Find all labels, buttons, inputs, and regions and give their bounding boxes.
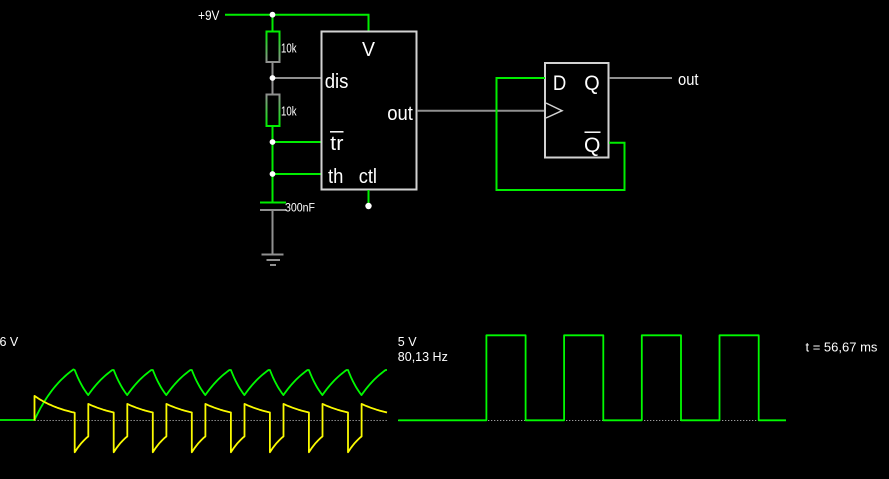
svg-text:out: out [387, 103, 413, 125]
svg-text:6 V: 6 V [0, 335, 19, 349]
wire top rail to 555 V+ pin [272, 15, 369, 31]
svg-text:+9V: +9V [198, 7, 220, 23]
svg-text:80,13 Hz: 80,13 Hz [398, 350, 448, 364]
ctl unconnected post [365, 203, 371, 209]
wire R2 bottom to tr node [272, 126, 274, 142]
svg-text:dis: dis [325, 71, 349, 93]
wire 555 out to flip-flop clock [417, 110, 544, 112]
junction th node [270, 171, 276, 177]
capacitor C1 top plate [260, 202, 286, 204]
wire +9V to top junction [225, 14, 272, 16]
label Qbar overline [585, 131, 601, 133]
scope 1 capacitor current trace [35, 396, 388, 452]
svg-text:tr: tr [330, 133, 344, 155]
scope 2 output voltage trace [398, 335, 786, 420]
capacitor C1 bottom plate [260, 209, 286, 211]
scope 1 zero reference line [35, 420, 389, 422]
wire ctl stub [368, 190, 370, 203]
wire tr node to th node [272, 142, 274, 174]
svg-text:10k: 10k [281, 40, 297, 55]
svg-text:out: out [678, 70, 699, 89]
svg-text:300nF: 300nF [285, 201, 315, 215]
svg-text:5 V: 5 V [398, 335, 417, 349]
svg-text:t = 56,67 ms: t = 56,67 ms [806, 339, 878, 354]
junction dis node [270, 75, 276, 81]
svg-text:10k: 10k [281, 103, 297, 118]
svg-text:Q: Q [584, 71, 599, 95]
junction top rail [270, 12, 276, 18]
wire th [273, 173, 322, 175]
wire dis [273, 77, 322, 79]
svg-text:ctl: ctl [359, 166, 377, 188]
resistor R1 [267, 32, 280, 63]
wire R1 top [272, 15, 274, 32]
wire capacitor to ground [272, 211, 274, 254]
scope 1 capacitor voltage trace [0, 369, 387, 420]
label tr pin overline [330, 131, 344, 133]
wire Q output to out node [609, 77, 672, 79]
wire Qbar feedback loop to D input [497, 78, 625, 190]
scope 2 zero reference line [398, 420, 761, 422]
svg-text:th: th [328, 166, 343, 188]
junction tr node [270, 139, 276, 145]
wire R2 top [272, 78, 274, 95]
svg-text:Q: Q [584, 133, 600, 157]
ground [262, 255, 284, 266]
svg-text:D: D [553, 71, 566, 95]
op-amp U1 555 timer box [322, 32, 417, 190]
flip-flop U2 box [545, 63, 609, 158]
resistor R2 [267, 95, 280, 127]
wire th node to capacitor [272, 174, 274, 202]
svg-text:V: V [362, 39, 376, 61]
wire tr [273, 141, 322, 143]
clock triangle [546, 103, 562, 118]
wire R1 bottom to dis node [272, 63, 274, 79]
